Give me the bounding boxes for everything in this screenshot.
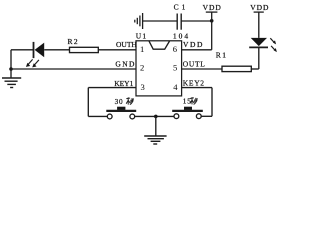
svg-text:C 1: C 1 (174, 2, 186, 11)
wire R1 to LED column (251, 68, 258, 70)
IC notch (149, 41, 170, 49)
glyph miao (seconds) for SW2 (190, 98, 197, 105)
svg-text:6: 6 (173, 44, 178, 54)
wire pin4 KEY2 (182, 87, 212, 89)
ground G1 (2, 78, 21, 88)
svg-text:VDD: VDD (250, 3, 269, 12)
svg-text:OUTL: OUTL (183, 60, 206, 69)
svg-text:5: 5 (173, 63, 177, 73)
switch SW2 (15s) (172, 107, 203, 119)
resistor R1 (222, 66, 251, 71)
wire SW1 to node (135, 115, 174, 117)
wire diode to R2 (44, 49, 69, 51)
svg-text:U1: U1 (136, 31, 148, 40)
wire gnd to C1 (143, 20, 178, 22)
LED D2 arrows (270, 38, 277, 52)
wire R2 to chip pin1 (98, 49, 136, 51)
svg-text:2: 2 (140, 63, 144, 73)
mic ground (rotated) (135, 13, 143, 29)
IC U1 body (136, 41, 182, 96)
svg-text:R2: R2 (68, 37, 80, 46)
node junction dot left (9, 67, 13, 71)
diode D1 (34, 42, 45, 58)
wire LED to VDD2 (258, 12, 260, 38)
wire LED column lower (258, 48, 260, 70)
svg-text:3: 3 (141, 82, 145, 92)
wire KEY1 down (87, 88, 89, 117)
node junction dot VDD rail (210, 19, 214, 23)
power VDD2 symbol (254, 11, 264, 13)
wire row2 GND (11, 68, 136, 70)
svg-text:R1: R1 (216, 50, 228, 59)
wire row1 left segment (11, 49, 34, 51)
resistor R2 (70, 47, 99, 52)
ground G2 (144, 136, 166, 144)
wire pin6 to VDD1 (182, 49, 212, 51)
wire to SW2 right (201, 115, 212, 117)
wire to SW1 left (88, 115, 107, 117)
LED D1 arrows (26, 59, 39, 67)
LED D2 (249, 38, 268, 48)
svg-text:104: 104 (173, 31, 190, 40)
svg-text:OUTH: OUTH (116, 40, 137, 49)
wire row3 KEY1 (88, 87, 136, 89)
left vertical wire (10, 50, 12, 78)
svg-text:KEY2: KEY2 (183, 79, 205, 88)
svg-text:GND: GND (115, 60, 135, 69)
wire C1 to VDD rail (181, 20, 212, 22)
wire pin5 OUTL to R1 (182, 68, 222, 70)
wire node to ground (155, 116, 157, 136)
wire KEY2 down (211, 88, 213, 117)
svg-text:VDD: VDD (183, 40, 204, 49)
power VDD1 symbol (206, 12, 218, 50)
capacitor C1 (177, 14, 181, 30)
svg-text:VDD: VDD (203, 3, 222, 12)
svg-text:KEY1: KEY1 (114, 79, 133, 88)
svg-text:1: 1 (140, 44, 144, 54)
svg-text:4: 4 (173, 82, 178, 92)
svg-text:30: 30 (115, 98, 124, 106)
node junction dot bottom (154, 115, 158, 119)
switch SW1 (30s) (106, 107, 136, 119)
glyph miao (seconds) for SW1 (126, 98, 133, 105)
